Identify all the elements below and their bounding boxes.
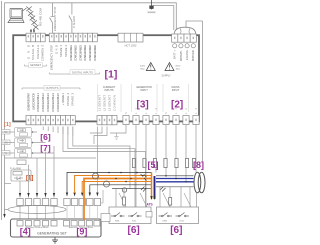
cable loom ellipse	[8, 206, 66, 214]
svg-text:CONFIGURABLE 4: CONFIGURABLE 4	[51, 92, 55, 112]
svg-text:[4]: [4]	[20, 227, 31, 237]
svg-text:CONFIGURABLE 3: CONFIGURABLE 3	[78, 44, 82, 61]
battery plug connector	[174, 27, 196, 34]
warning triangle generator 400V	[146, 63, 155, 71]
remote alarm switch	[69, 3, 72, 33]
svg-text:SPARE 1: SPARE 1	[59, 44, 63, 57]
svg-text:[6]: [6]	[128, 225, 140, 236]
svg-text:P. ALARM: P. ALARM	[72, 16, 76, 28]
aux terminal cells above loom	[17, 199, 57, 206]
svg-text:GND: GND	[54, 45, 58, 54]
svg-text:CONFIGURABLE 3: CONFIGURABLE 3	[46, 92, 50, 112]
aux rect inside mains contactor	[146, 212, 152, 218]
svg-text:INPUT: INPUT	[140, 89, 148, 92]
blue mains bus	[156, 179, 194, 182]
generator contactor box	[157, 207, 199, 224]
svg-text:CONFIGURABLE 4: CONFIGURABLE 4	[83, 44, 87, 61]
labels above current input terminals	[97, 95, 116, 111]
svg-text:[1]: [1]	[4, 122, 11, 128]
svg-text:[5]: [5]	[148, 160, 159, 170]
svg-text:CONFIGURABLE 2: CONFIGURABLE 2	[74, 44, 78, 61]
relay rows KSG KMC KT1	[2, 128, 32, 138]
orange phase wires	[75, 176, 152, 221]
svg-text:SIGNAL B: SIGNAL B	[31, 45, 35, 60]
battery plug terminal cells	[172, 34, 197, 42]
svg-text:N: N	[124, 112, 128, 114]
cable hatch marks	[141, 187, 166, 192]
labels above voltage terminals	[124, 107, 198, 114]
fuse above generator contactor	[169, 198, 172, 206]
right margin wire	[202, 21, 204, 162]
diagonal feed wires crossing into boxes	[119, 193, 191, 207]
terminal block RS485 (top left)	[26, 33, 45, 42]
fuse above mains contactor	[123, 188, 125, 207]
svg-text:L3 GENSET: L3 GENSET	[107, 95, 111, 111]
alternator terminal cells upper row	[64, 199, 101, 206]
svg-text:DIGITAL INPUTS: DIGITAL INPUTS	[72, 71, 93, 75]
svg-text:EMERGENCY STOP: EMERGENCY STOP	[53, 6, 57, 31]
svg-text:GENERATING SET: GENERATING SET	[37, 232, 67, 236]
svg-text:KG1: KG1	[132, 221, 137, 223]
svg-text:NCT 1032: NCT 1032	[125, 44, 137, 48]
CT loop 3	[122, 188, 126, 192]
svg-text:KT1: KT1	[2, 152, 7, 155]
svg-text:L1 GENSET: L1 GENSET	[97, 95, 101, 111]
page border left line	[1, 1, 3, 220]
warning triangle mains 400V	[165, 63, 174, 71]
terminal block outputs (bottom left)	[26, 116, 75, 125]
svg-text:SIGNAL A: SIGNAL A	[36, 45, 40, 59]
wires down to genset aux terminals	[20, 146, 54, 198]
stair routing wires	[96, 127, 98, 194]
svg-text:KM2: KM2	[163, 221, 168, 223]
group CURRENT INPUTS	[98, 84, 122, 112]
svg-text:GENSET: GENSET	[30, 63, 41, 67]
svg-text:[1]: [1]	[26, 176, 33, 182]
terminal block digital inputs (top)	[49, 33, 97, 42]
fuse bank	[132, 159, 195, 168]
svg-text:[9]: [9]	[76, 227, 87, 237]
svg-text:CONFIGURABLE 6: CONFIGURABLE 6	[93, 44, 97, 61]
group MAINS INPUT	[163, 84, 189, 112]
left wire rail	[4, 3, 6, 214]
svg-text:BODY GND: BODY GND	[191, 50, 195, 61]
svg-text:N: N	[164, 112, 168, 114]
svg-text:KMC: KMC	[2, 142, 8, 145]
genset phase bus black top	[67, 173, 152, 194]
small aux box left of contactor	[101, 214, 110, 222]
svg-text:[6]: [6]	[170, 225, 182, 236]
svg-text:BATT +: BATT +	[173, 50, 177, 59]
svg-text:[7]: [7]	[40, 143, 51, 153]
top wire rail 1	[5, 3, 177, 30]
svg-text:[8]: [8]	[193, 160, 204, 170]
svg-text:SPARE 2: SPARE 2	[66, 92, 70, 106]
svg-text:BATTERY -: BATTERY -	[179, 50, 183, 61]
terminal cells voltage inputs (bottom right)	[123, 116, 199, 125]
alternator drop wires with arrows	[66, 193, 99, 197]
generator alternator ovals	[194, 172, 205, 193]
generator earth wire	[196, 193, 198, 208]
svg-text:KG2: KG2	[180, 221, 185, 223]
long wires to harness	[5, 132, 97, 158]
svg-text:ATS: ATS	[147, 203, 153, 207]
svg-text:[6]: [6]	[40, 132, 51, 142]
wire to plug from right	[186, 21, 203, 28]
wires from fuses into bus	[0, 0, 1, 1]
wires from voltage terminals	[110, 125, 196, 208]
mains contactor box	[109, 207, 151, 224]
svg-text:COMMON S: COMMON S	[41, 45, 45, 61]
svg-text:+ SPARE 1: + SPARE 1	[61, 92, 65, 105]
laptop computer	[8, 9, 24, 23]
GENERATING SET box	[11, 219, 102, 237]
svg-text:EMERGENCY STOP: EMERGENCY STOP	[50, 45, 54, 70]
terminal block current inputs (bottom middle)	[97, 116, 117, 125]
bracket OUTPUTS	[22, 88, 80, 90]
labels above output terminals	[26, 92, 74, 112]
svg-text:CONFIGURABLE 1: CONFIGURABLE 1	[69, 44, 73, 61]
svg-text:L2 GENSET: L2 GENSET	[102, 95, 106, 111]
CT loop 2	[104, 181, 110, 187]
svg-text:GENERATOR START: GENERATOR START	[26, 93, 30, 111]
feed wires into contactor boxes	[116, 187, 190, 207]
ground stub below current terminals	[114, 133, 118, 140]
group GENERATOR INPUT	[132, 84, 158, 112]
svg-text:INPUTS: INPUTS	[104, 89, 114, 92]
chevrons leaving bus	[141, 174, 147, 181]
ATS drop bundle	[151, 173, 153, 200]
NCT 1032 block	[118, 33, 143, 42]
svg-text:COMMON: COMMON	[112, 95, 116, 111]
arrows into aux terminals	[19, 193, 55, 197]
ground below genset box	[52, 237, 58, 243]
svg-text:OUTPUTS: OUTPUTS	[46, 86, 59, 90]
svg-text:ENGINE: ENGINE	[185, 50, 189, 60]
svg-text:RS-485 COM: RS-485 COM	[39, 7, 43, 26]
svg-text:CONFIGURABLE 1: CONFIGURABLE 1	[36, 92, 40, 112]
svg-text:LOAD CONTACTOR: LOAD CONTACTOR	[31, 93, 35, 110]
aux terminal block cells in genset box	[17, 221, 57, 227]
labels under digital input terminals	[50, 44, 97, 70]
svg-text:SUPPLY: SUPPLY	[162, 75, 172, 78]
svg-text:[1]: [1]	[105, 69, 118, 81]
CT loop 1	[93, 173, 99, 179]
controller main box	[13, 35, 199, 121]
svg-text:INPUT: INPUT	[172, 89, 180, 92]
junction dots on bus	[108, 172, 144, 183]
svg-text:KSG: KSG	[2, 131, 7, 134]
alternator terminal block cells in genset box	[64, 221, 100, 227]
top wire rail 2	[150, 6, 174, 31]
loom earth wire with arrow	[5, 210, 9, 215]
svg-text:SPARE 3: SPARE 3	[71, 92, 75, 106]
plug screw circles	[173, 44, 196, 48]
aux contact box	[17, 160, 26, 165]
labels under RS485 terminals	[26, 45, 44, 61]
wire to P.ALARM	[5, 183, 12, 185]
svg-text:SPARE 2: SPARE 2	[64, 44, 68, 57]
svg-text:CONFIGURABLE 2: CONFIGURABLE 2	[41, 92, 45, 112]
svg-text:400V: 400V	[140, 66, 146, 68]
RS-485 twisted pair cable	[26, 7, 38, 30]
svg-text:KM1: KM1	[115, 221, 120, 223]
cable arrows into terminals	[31, 29, 34, 32]
battery / engine-body labels	[173, 50, 196, 61]
svg-text:400V: 400V	[175, 66, 181, 68]
chassis ground symbol on rail	[149, 0, 154, 10]
bracket DIGITAL INPUTS	[50, 73, 100, 75]
svg-text:CONFIGURABLE 5: CONFIGURABLE 5	[56, 92, 60, 112]
wires from output terminals down	[43, 127, 73, 137]
bracket GENSET	[25, 65, 47, 67]
svg-text:CONFIGURABLE 5: CONFIGURABLE 5	[88, 44, 92, 61]
emergency stop switch	[50, 3, 53, 33]
